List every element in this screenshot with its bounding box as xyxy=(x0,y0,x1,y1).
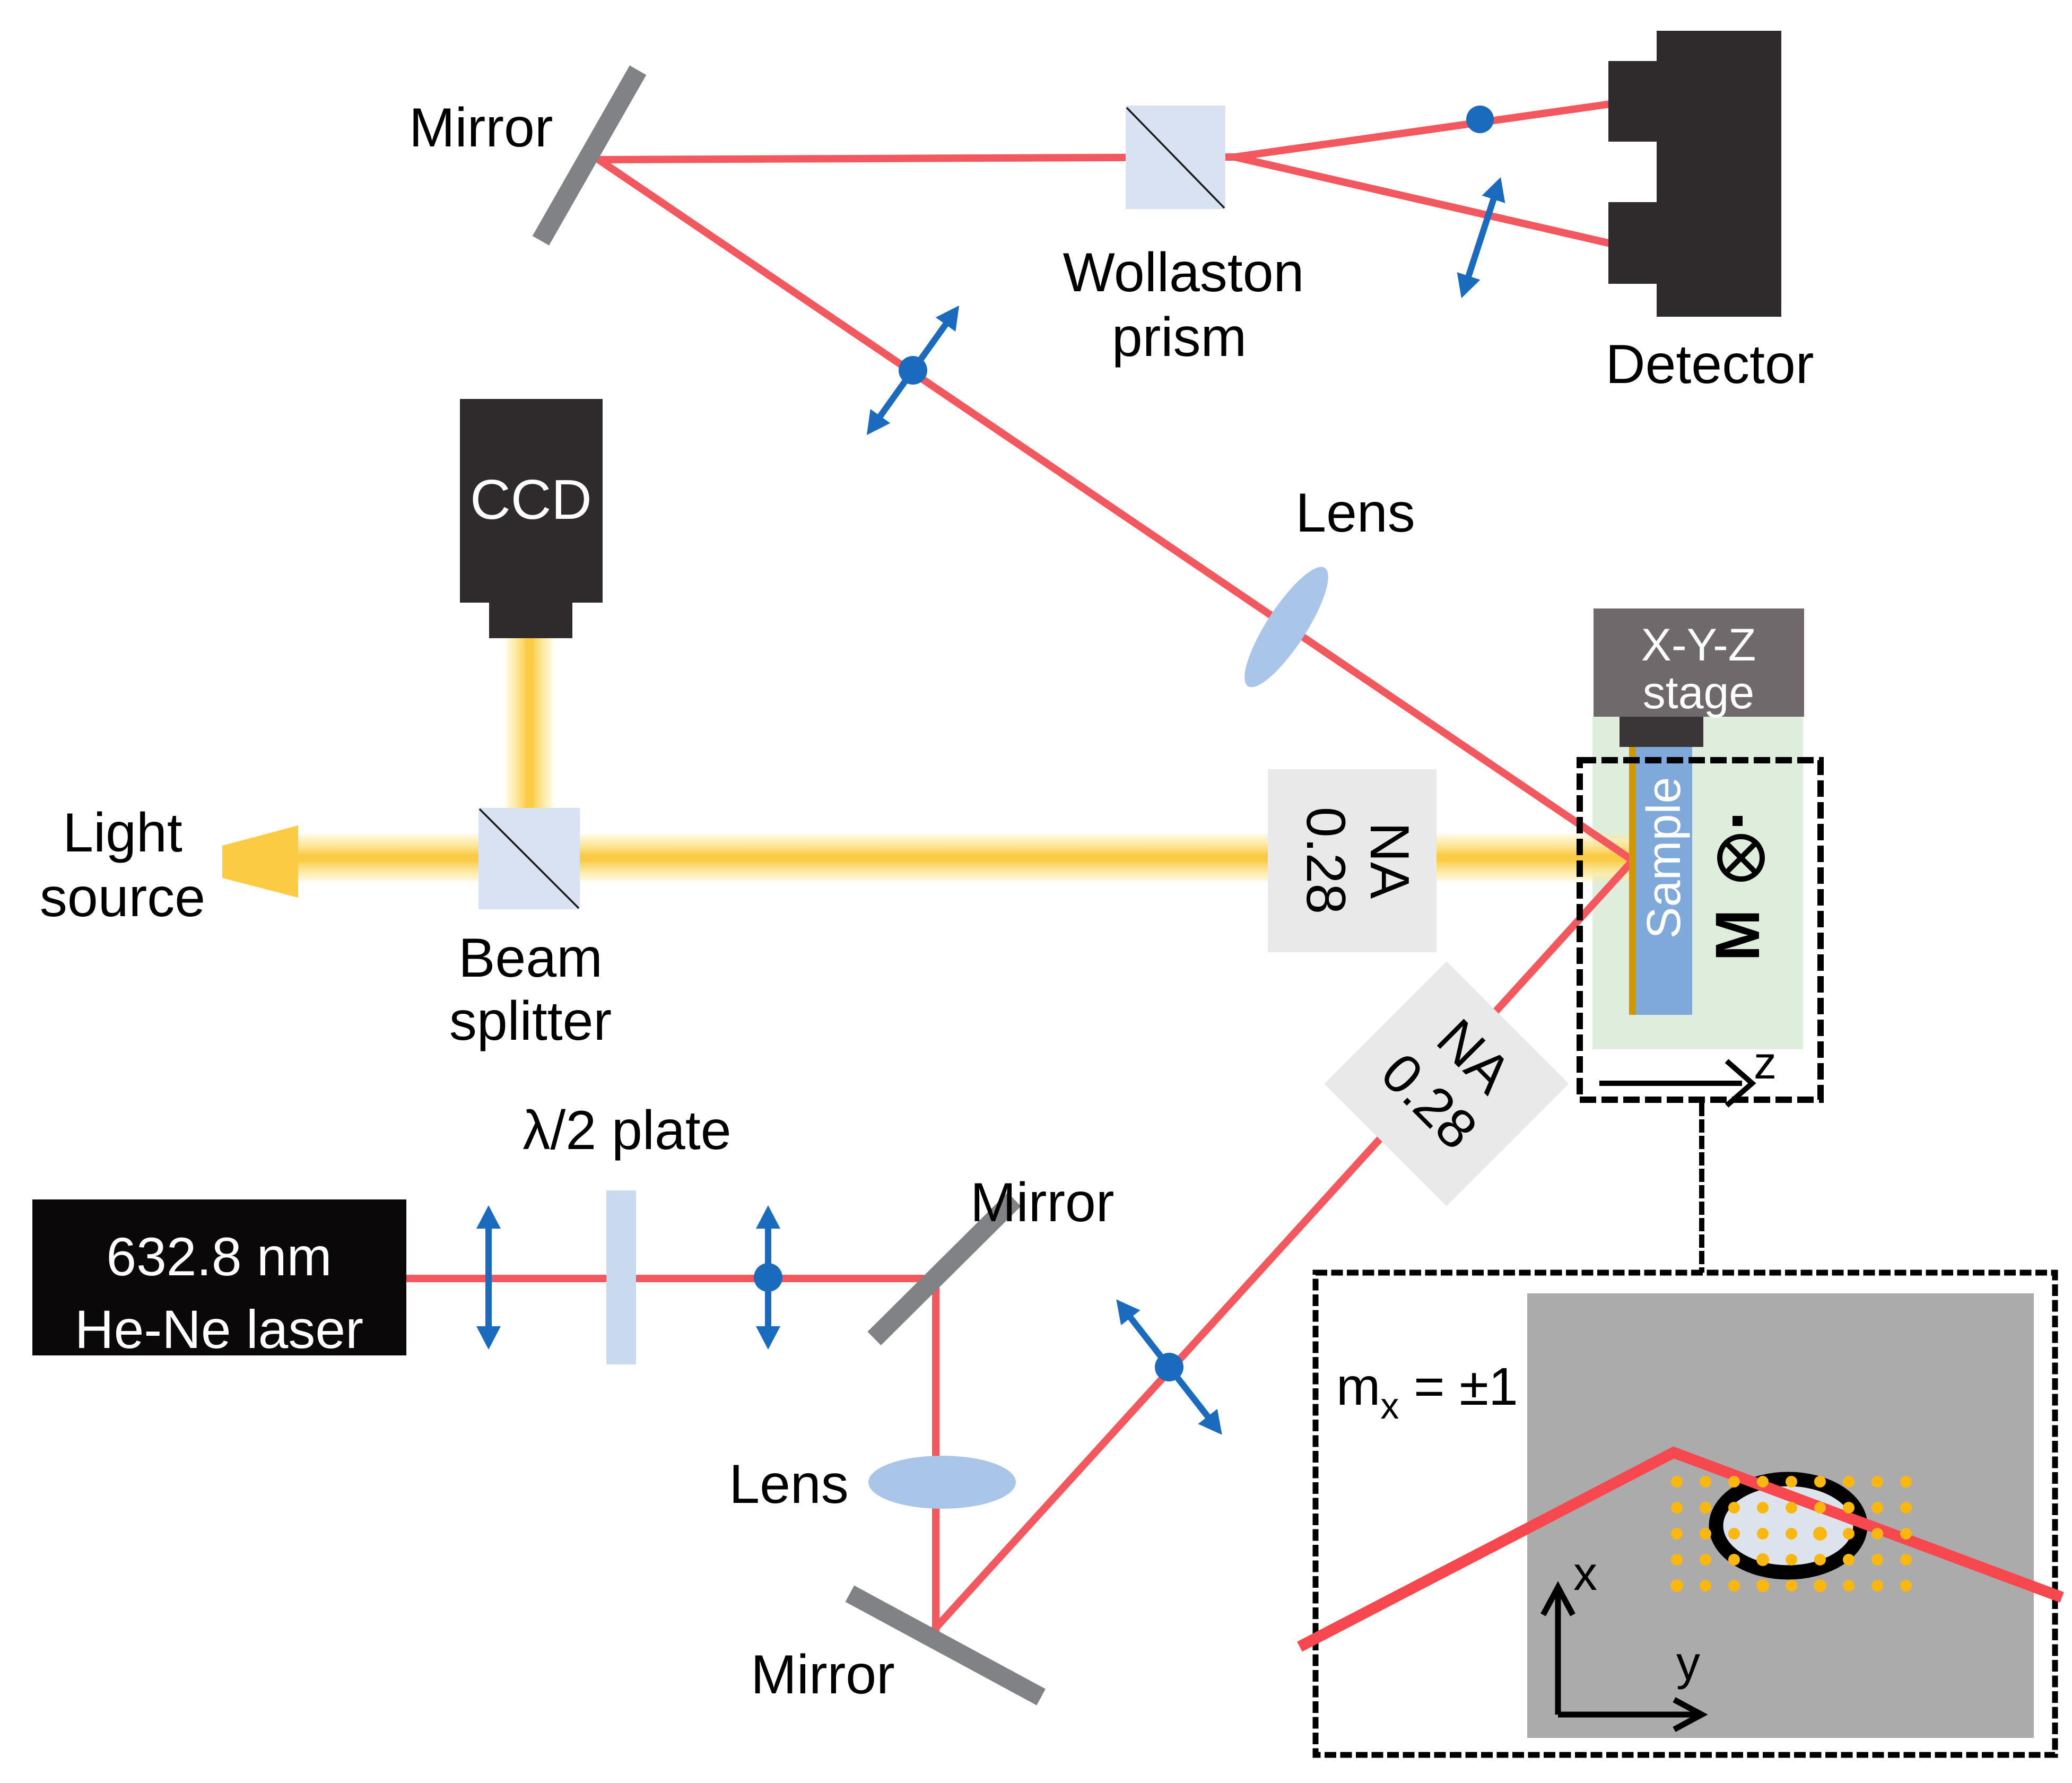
sample clamp xyxy=(1620,717,1703,747)
NA 0.28 diamond (on red beam) xyxy=(1324,961,1569,1206)
svg-text:mx = ±1: mx = ±1 xyxy=(1336,1357,1518,1427)
dashed connector xyxy=(1699,1103,1704,1273)
polarization arrow + dot (beam to mirror1) xyxy=(855,297,971,443)
light source arrow xyxy=(222,825,298,898)
svg-text:λ/2 plate: λ/2 plate xyxy=(523,1100,731,1161)
CCD camera xyxy=(460,399,603,638)
svg-text:splitter: splitter xyxy=(449,990,612,1052)
inset domain ellipse xyxy=(1716,1479,1860,1572)
lambda/2 plate xyxy=(606,1190,636,1364)
beam splitter xyxy=(478,808,580,909)
inset x axis xyxy=(1543,1587,1702,1729)
z axis arrow xyxy=(1599,1061,1752,1106)
svg-text:Detector: Detector xyxy=(1605,334,1814,395)
svg-text:Mirror: Mirror xyxy=(409,97,553,159)
sample stage green mount xyxy=(1592,717,1803,1049)
inset sample surface xyxy=(1527,1293,2034,1738)
wire: red beam mirror1 to prism xyxy=(598,157,1236,160)
svg-text:Mirror: Mirror xyxy=(751,1644,894,1706)
svg-text:x: x xyxy=(1573,1547,1597,1601)
dashed box around sample xyxy=(1580,760,1821,1100)
mirror M1 (top left) xyxy=(533,65,647,245)
svg-text:He-Ne laser: He-Ne laser xyxy=(75,1299,363,1360)
svg-text:X-Y-Z: X-Y-Z xyxy=(1641,620,1756,671)
inset red beam xyxy=(1300,1453,2062,1647)
polarization arrow + dot (diagonal beam) xyxy=(1105,1291,1233,1444)
yellow beam horizontal xyxy=(289,832,1633,883)
svg-text:prism: prism xyxy=(1112,307,1247,368)
svg-text:0.28: 0.28 xyxy=(1295,807,1356,914)
svg-text:CCD: CCD xyxy=(470,468,592,531)
wire: red beam mirror3 to sample xyxy=(934,860,1633,1630)
wire: red beam prism to detector lower xyxy=(1235,157,1610,243)
polarization arrow 1 (after laser) xyxy=(476,1205,501,1350)
M magnetization dot xyxy=(1733,816,1743,826)
svg-text:NA: NA xyxy=(1359,822,1420,899)
svg-text:source: source xyxy=(40,867,205,928)
svg-text:y: y xyxy=(1676,1637,1700,1690)
svg-text:Light: Light xyxy=(63,802,182,864)
svg-text:Lens: Lens xyxy=(1295,482,1415,544)
gold sample film xyxy=(1629,747,1636,1015)
sample substrate bar xyxy=(1636,747,1692,1015)
lens (lower) xyxy=(868,1456,1016,1509)
polarization arrow 2 + dot (before mirror2) xyxy=(754,1205,782,1350)
yellow beam vertical (CCD) xyxy=(504,638,555,813)
wire: red beam prism to detector upper xyxy=(1235,104,1610,157)
inset skyrmion dot lattice xyxy=(1670,1476,1912,1592)
svg-text:z: z xyxy=(1754,1038,1777,1089)
svg-text:Lens: Lens xyxy=(729,1454,849,1515)
detector xyxy=(1608,31,1781,317)
X-Y-Z stage body xyxy=(1594,608,1804,717)
He-Ne laser box xyxy=(32,1199,406,1360)
mirror M2 (right of laser) xyxy=(867,1193,1021,1345)
svg-text:stage: stage xyxy=(1643,667,1754,718)
svg-text:M: M xyxy=(1703,909,1773,961)
lens (upper, tilted) xyxy=(1232,557,1342,697)
M into-page symbol xyxy=(1720,837,1762,879)
mirror M3 (bottom) xyxy=(846,1586,1046,1706)
polarization arrow (lower detector beam) xyxy=(1450,173,1512,302)
svg-text:Sample: Sample xyxy=(1638,777,1691,938)
svg-text:Mirror: Mirror xyxy=(970,1172,1114,1233)
wire: red beam laser to mirror2 and down xyxy=(406,1278,936,1634)
X-Y-Z stage label xyxy=(1641,620,1756,718)
polarization dot (upper detector beam) xyxy=(1466,106,1494,133)
inset dashed box xyxy=(1316,1273,2055,1755)
svg-text:Wollaston: Wollaston xyxy=(1063,242,1304,303)
svg-text:632.8 nm: 632.8 nm xyxy=(106,1227,332,1287)
NA 0.28 box (on yellow beam) xyxy=(1268,769,1437,952)
Wollaston prism xyxy=(1126,106,1225,209)
svg-text:Beam: Beam xyxy=(458,927,603,989)
wire: red beam sample to mirror1 xyxy=(596,158,1633,860)
